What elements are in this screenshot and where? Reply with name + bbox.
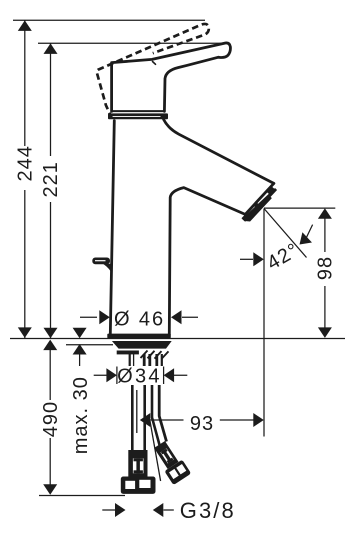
svg-text:Ø34: Ø34 <box>117 366 162 388</box>
svg-text:244: 244 <box>15 145 37 181</box>
svg-text:98: 98 <box>315 256 337 280</box>
svg-text:G3/8: G3/8 <box>180 498 236 523</box>
svg-text:max. 30: max. 30 <box>70 376 92 454</box>
svg-text:221: 221 <box>40 161 62 197</box>
svg-text:490: 490 <box>40 401 62 437</box>
svg-text:Ø 46: Ø 46 <box>114 309 165 331</box>
svg-text:93: 93 <box>190 413 214 435</box>
